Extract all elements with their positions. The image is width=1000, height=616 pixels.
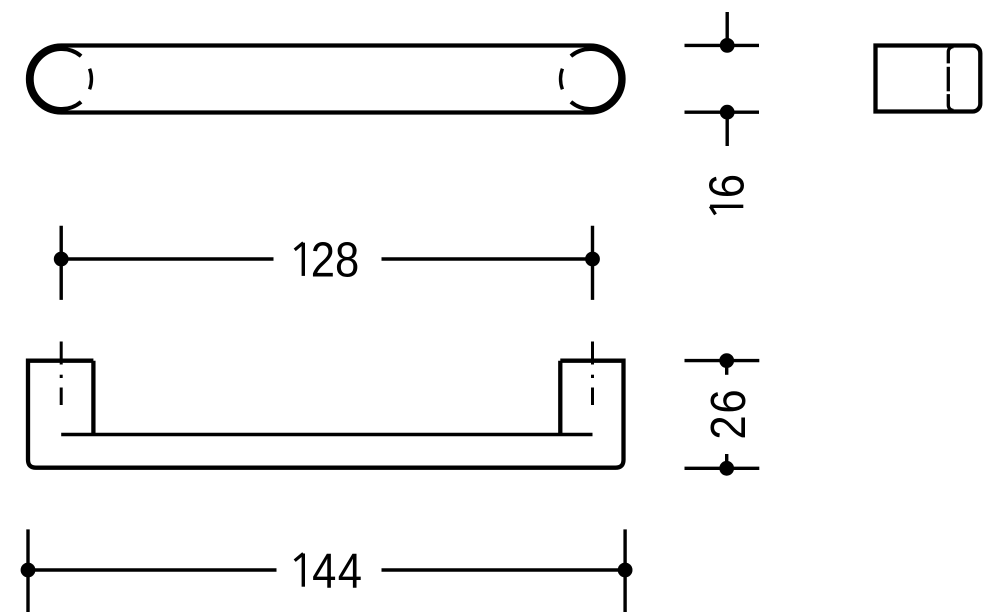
dim144 dimension line left part [28, 568, 277, 571]
front view: right post center line (dash-dot) [591, 342, 594, 406]
side view: rounded rectangle outline [876, 46, 981, 112]
dim16 vertical line above top dot [726, 12, 729, 45]
dimension 144 (bottom) [28, 529, 625, 612]
svg-text:44: 44 [312, 543, 363, 598]
front view: left post center line (dash-dot) [60, 342, 63, 406]
dim16 top dot [720, 38, 735, 53]
dim16 bottom dot [720, 105, 735, 120]
dim144 right extension line [623, 529, 626, 612]
dim16 bottom extension line [685, 110, 760, 113]
dim128 left extension line [60, 226, 63, 300]
dim128 left dot [54, 252, 69, 267]
dim16 label [710, 206, 743, 214]
dim26 top extension line [685, 359, 760, 362]
dimension 128 [61, 226, 592, 300]
top view: left end hidden dashed arc [90, 69, 92, 90]
dim144 right dot [618, 563, 633, 578]
top view: right end solid circle arc [571, 49, 620, 109]
top view: right end hidden dashed arc [561, 69, 563, 90]
svg-text:28: 28 [311, 232, 360, 287]
top view: left end solid circle arc [32, 49, 81, 109]
side view: hidden dashed edge bottom hook [948, 94, 953, 110]
dim144 left extension line [26, 529, 29, 612]
dim144 label [295, 554, 304, 587]
dim16 top extension line [685, 44, 760, 47]
svg-text:6: 6 [699, 174, 754, 198]
svg-text:26: 26 [701, 388, 756, 440]
front view: bar top edge line [61, 433, 592, 437]
top view: stadium outline [28, 46, 624, 113]
front view: left post inner edge [91, 361, 95, 435]
dim144 left dot [21, 563, 36, 578]
dim128 right extension line [591, 226, 594, 300]
front view: outer contour of bar and posts [28, 361, 624, 468]
side view: hidden dashed edge middle dash [947, 67, 950, 92]
dim26 bottom extension line [685, 467, 760, 470]
dim26 top dot [719, 353, 734, 368]
dim26 stub above bottom dot [725, 454, 728, 468]
dim128 dimension line left part [61, 257, 273, 260]
dimension 16 (top right) [685, 12, 760, 146]
side view: hidden dashed edge top hook [948, 47, 953, 64]
front view: right post inner edge [558, 361, 562, 435]
dimension 26 (right of front view) [685, 361, 760, 469]
dim128 dimension line right part [382, 257, 593, 260]
dim128 right dot [585, 252, 600, 267]
dim16 vertical line below bottom dot [726, 112, 729, 146]
dim128 label [295, 243, 304, 276]
dim26 bottom dot [719, 461, 734, 476]
dim26 stub below top dot [725, 361, 728, 375]
dim144 dimension line right part [382, 568, 626, 571]
